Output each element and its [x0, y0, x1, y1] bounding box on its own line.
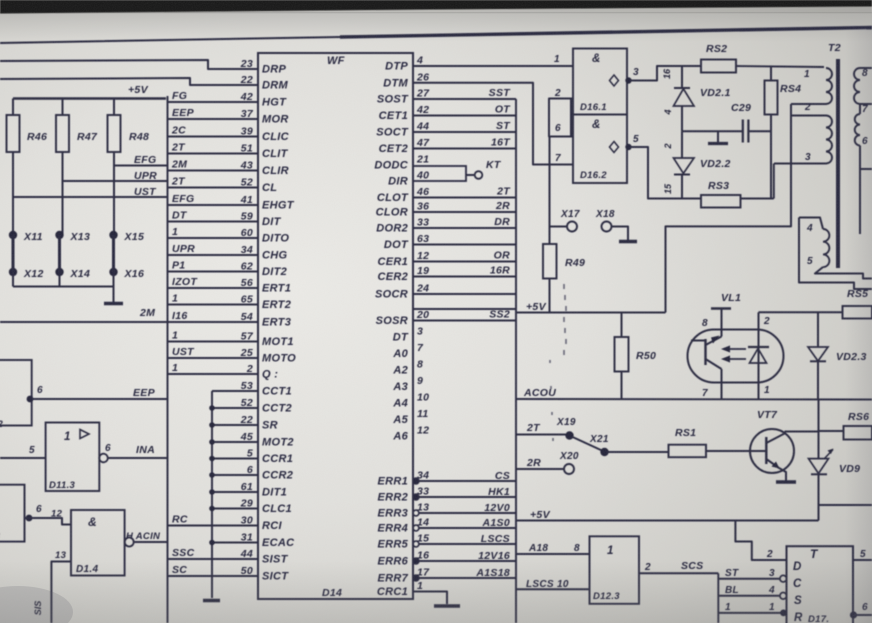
T2 primary winding 2-3 [774, 102, 832, 164]
D input wire from +5V [735, 521, 786, 561]
IC D14 left pin 45 MOT2 [212, 431, 294, 449]
scan crease dotted artifact [550, 284, 566, 441]
IC D14 right pin 44 SOCT [376, 120, 516, 139]
jumper X15/X16 [109, 231, 144, 287]
IC D14 left pin 5 CCR1 [212, 448, 293, 466]
IC D14 right pin 15 ERR5 [377, 533, 516, 551]
IC D14 left pin 41 EHGT [168, 193, 295, 212]
IC D14 right pin 27 SOST [377, 87, 516, 106]
wire RS2 to T2 pin1 [736, 66, 824, 67]
D11.3 input wire pin 5 [0, 445, 46, 458]
ground under jumper block [104, 287, 123, 304]
wire X21 to RS1 [607, 451, 669, 453]
IC D14 left pin 50 SICT [168, 564, 290, 583]
wire pin2/6 node down to R49 [549, 137, 551, 245]
D1.4 input 13 wire from bottom edge [51, 550, 71, 623]
RS3 right wire to node [741, 198, 774, 200]
resistor RS3 [701, 180, 741, 208]
jumper X13/X14 [55, 231, 90, 287]
right vertical bus SST [515, 99, 517, 623]
IC D14 right pin 17 ERR7 [377, 567, 516, 585]
IC D14 left pin 22 SR [212, 414, 278, 432]
logic gate D16.1 [573, 49, 632, 115]
IC D14 left pin 65 ERT2 [168, 293, 292, 312]
bottom rail of jumper block [13, 286, 114, 288]
diode VD2.1 [662, 66, 731, 131]
IC D14 left pin 42 HGT [168, 90, 288, 109]
IC D14 left pin 30 RCI [168, 514, 283, 533]
IC D14 right pin 16 ERR6 [377, 550, 516, 568]
scan top black bar [0, 0, 872, 14]
logic gate D11.3 buffer [46, 423, 100, 492]
diode VD2.3 [808, 312, 867, 399]
D11.3 output bubble and INA wire [99, 443, 167, 462]
resistor RS5 [843, 288, 872, 319]
wire to pin 22 DRM from left edge [0, 78, 258, 85]
VL1 pin 8 stub [702, 309, 731, 333]
logic gate D11.2 (clipped at left edge) [0, 360, 32, 430]
2R stub with X20 terminal [516, 451, 579, 474]
ground at bottom of inner bus [203, 599, 220, 602]
flip-flop bus vertical [717, 573, 719, 623]
left outer vertical bus [167, 96, 169, 623]
UPR wire [63, 170, 168, 182]
IC D14 right pin 40 DIR [388, 159, 502, 188]
IC D14 left pin 54 ERT3 [168, 310, 292, 329]
wire to pin 23 DRP from left edge [0, 60, 258, 69]
T2 secondary winding 7-6 [855, 104, 872, 234]
R49 bottom wire to +5V rail [549, 279, 551, 313]
flip-flop output 6 [850, 602, 872, 619]
VL1 internal LED [748, 332, 769, 380]
resistor R46 [7, 99, 48, 236]
ACOU rail [516, 387, 872, 400]
IC D14 left pin 61 DIT1 [212, 481, 287, 499]
ground under X18 [619, 240, 637, 243]
IC D14 right pin 14 ERR4 [377, 517, 516, 535]
2T stub with X19 terminal [516, 417, 576, 440]
UST wire [13, 186, 168, 198]
scan shadow under top bar [0, 4, 872, 13]
wire RS1 to VT7 base [706, 450, 752, 452]
IC D14 right pin 9 A3 [392, 375, 423, 393]
R input wire [718, 602, 787, 616]
IC D14 right pin 1 CRC1 [377, 580, 460, 606]
IC D14 left pin 34 CHG [168, 243, 288, 262]
optocoupler VL1 body [688, 292, 784, 383]
resistor RS2 [701, 43, 736, 73]
IC D14 right pin 8 A2 [392, 359, 423, 377]
buffer D12.3 [590, 536, 640, 604]
IC D14 left pin 53 CCT1 [212, 380, 292, 398]
node EEP wire from D11.2 output [27, 385, 168, 402]
VL1 pin 2 wire [759, 312, 843, 332]
IC D14 left pin 56 ERT1 [168, 276, 292, 295]
test point X18 [595, 209, 628, 240]
flip-flop output 5 [853, 549, 872, 560]
resistor R49 [543, 244, 585, 279]
IC D14 right pin 13 ERR3 [377, 502, 516, 520]
IC D14 left pin 59 DIT [168, 210, 282, 229]
IC D14 (WF) body [258, 53, 413, 599]
resistor R50 [615, 313, 657, 400]
SCS output wire [639, 560, 718, 573]
wire spacer row right of IC [413, 308, 516, 310]
IC D14 left pin 44 SIST [168, 547, 289, 566]
IC D14 left pin 29 CLC1 [212, 498, 292, 516]
ground under VT7 [776, 480, 796, 483]
D16.2 output 5 wire [630, 134, 701, 199]
diode VD9 [809, 400, 861, 521]
IC D14 right pin 33 DOR2 [376, 216, 516, 235]
resistor R48 [108, 99, 150, 236]
IC D14 left pin 52 CL [168, 176, 278, 195]
VL1 pin 1 wire to ACOU [759, 380, 771, 399]
page top border line [0, 28, 872, 44]
EFG wire [114, 154, 168, 166]
D16.2 pins 2/6 tie loop [549, 88, 573, 137]
IC D14 right pin 20 SOSR [376, 309, 516, 328]
resistor RS1 [669, 427, 707, 457]
2M wire from left edge to pin 54 row [0, 307, 168, 322]
VL1 light arrows [721, 346, 746, 363]
+5V rail (middle) [516, 301, 666, 313]
ST wire to C input [718, 568, 786, 582]
IC D14 right pin 34 ERR1 [377, 470, 516, 488]
IC D14 right pin 12 A6 [392, 425, 429, 443]
wire from D11.x output to D1.4 input 12 [25, 504, 72, 525]
IC D14 left pin 57 MOT1 [168, 330, 294, 349]
BL wire to S input [718, 585, 786, 599]
D1.4 output bubble, H ACIN net [125, 531, 168, 547]
IC D14 right pin 4 DTP [385, 55, 573, 73]
IC D14 left pin 23 DRP [240, 58, 287, 76]
IC D14 right pin 36 CLOR [376, 200, 516, 219]
VL1 pin 7 wire to ACOU [702, 380, 722, 399]
pin3 wire down to RS3 node [773, 164, 775, 199]
pin2 net wire down-left to +5V rail [666, 104, 792, 313]
IC D14 right pin 33 ERR2 [377, 486, 516, 504]
T2 core [836, 59, 840, 268]
IC D14 left pin 25 MOTO [168, 346, 297, 365]
T2 winding 4-5 [799, 218, 872, 290]
resistor R47 [56, 99, 98, 236]
IC D14 left pin 2 Q : [168, 362, 279, 381]
VL1 phototransistor [691, 332, 722, 380]
IC D14 right pin 3 DT [393, 326, 423, 344]
IC D14 left pin 51 CLIT [168, 142, 289, 161]
IC D14 left pin 43 CLIR [168, 159, 289, 178]
IC D14 left pin 31 ECAC [212, 532, 295, 550]
IC D14 right pin 42 CET1 [379, 104, 516, 123]
IC D14 right pin 11 A5 [392, 408, 428, 426]
IC D14 left pin 52 CCT2 [212, 397, 292, 415]
left inner vertical bus with junction dots [209, 391, 215, 598]
IC D14 right pin 46 CLOT [377, 186, 516, 205]
IC D14 right pin 63 DOT [384, 233, 516, 251]
IC D14 left pin 37 MOR [168, 107, 289, 126]
flip-flop D17 body [787, 546, 854, 623]
IC D14 right pin 10 A4 [392, 392, 429, 410]
IC D14 right pin 19 CER2 [377, 265, 516, 284]
ground on mid rail [708, 131, 728, 143]
transistor VT7 [750, 409, 819, 481]
switch X21 diagonal [572, 434, 609, 456]
IC D14 right pin 26 DTM [383, 71, 573, 164]
IC D14 right pin 47 CET2 [379, 137, 516, 156]
IC D14 right pin 12 CER1 [377, 250, 516, 269]
logic gate D1.4 [71, 510, 125, 576]
IC D14 left pin 39 CLIC [168, 125, 290, 144]
resistor RS4 [765, 67, 802, 199]
IC D14 right pin 24 SOCR [375, 283, 516, 301]
node wire gate3 to RS2 [682, 65, 701, 67]
mid rail with capacitor C29 [682, 102, 771, 143]
T2 secondary winding 8-7 [854, 68, 872, 104]
logic gate D16.2 [573, 115, 632, 184]
T2 primary winding 1-2 [791, 68, 832, 104]
IC D14 right pin 21 DODC [374, 154, 429, 172]
IC D14 left pin 6 CCR2 [212, 464, 293, 482]
IC D14 left pin 62 DIT2 [168, 260, 288, 279]
IC D14 left pin 22 DRM [240, 74, 289, 92]
IC D14 left pin 60 DITO [168, 226, 290, 245]
+5V rail lower [516, 505, 872, 521]
diode VD2.2 [663, 131, 731, 198]
test point X17 [550, 209, 580, 232]
A18 input wire [516, 543, 590, 554]
D16.1 output 3 wire [630, 66, 682, 81]
logic gate D11.x (clipped at left edge) [0, 485, 25, 542]
resistor RS6 [819, 411, 872, 440]
+5V rail of resistor network [13, 97, 166, 100]
LSCS input wire [516, 579, 590, 590]
jumper X11/X12 [9, 231, 44, 287]
IC D14 right pin 7 A0 [392, 342, 424, 360]
